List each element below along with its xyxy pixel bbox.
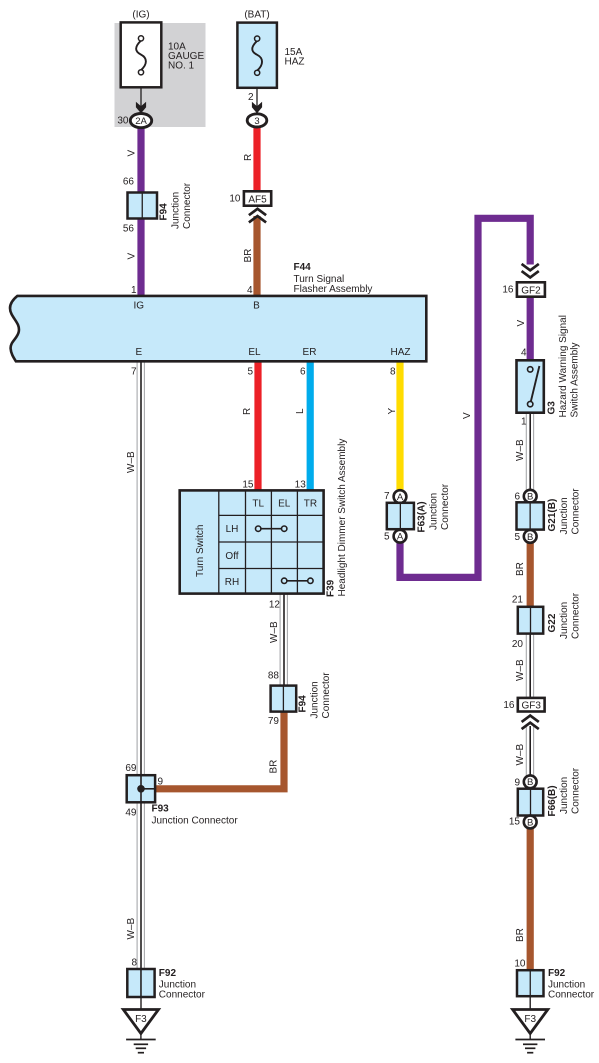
svg-text:5: 5 — [247, 367, 253, 378]
junction connector F63(A) (pins 7/5) — [394, 490, 407, 503]
wire W-B from F93 to F92 pin 8 — [136, 801, 138, 970]
svg-text:Junction: Junction — [559, 777, 570, 814]
svg-text:16: 16 — [502, 285, 514, 296]
svg-text:R: R — [242, 408, 253, 415]
svg-text:AF5: AF5 — [248, 194, 267, 205]
svg-text:4: 4 — [247, 285, 253, 296]
svg-text:Y: Y — [387, 408, 398, 415]
svg-text:Connector: Connector — [571, 592, 582, 639]
junction connector F66(B) (pins 9/15) — [524, 775, 537, 788]
svg-text:Junction Connector: Junction Connector — [152, 816, 239, 827]
svg-text:Junction: Junction — [559, 497, 570, 534]
svg-text:69: 69 — [125, 763, 137, 774]
svg-text:B: B — [527, 532, 533, 543]
svg-text:B: B — [527, 777, 533, 788]
svg-text:10: 10 — [229, 194, 241, 205]
svg-text:7: 7 — [384, 491, 390, 502]
svg-text:15: 15 — [509, 817, 521, 828]
svg-text:BR: BR — [243, 249, 254, 263]
wire V from F63(A) pin 5 up and over to GF2 pin 16 — [400, 218, 530, 577]
svg-text:Turn Switch: Turn Switch — [195, 525, 206, 577]
svg-text:21: 21 — [512, 594, 524, 605]
svg-text:79: 79 — [268, 716, 280, 727]
svg-text:B: B — [527, 492, 533, 503]
svg-text:B: B — [527, 817, 533, 828]
svg-text:2A: 2A — [135, 116, 147, 127]
LH contact TL-EL — [258, 528, 284, 530]
wire L from F44 pin 6 (ER) to turn switch pin 13 — [307, 360, 314, 492]
connector GF2 (pin 16) — [517, 282, 545, 296]
svg-text:W–B: W–B — [269, 621, 280, 643]
svg-text:HAZ: HAZ — [285, 57, 305, 68]
svg-text:Connector: Connector — [571, 767, 582, 814]
wire BR from AF5 to F44 pin 4 (B) — [253, 216, 260, 297]
svg-text:Connector: Connector — [548, 989, 595, 1000]
svg-text:IG: IG — [134, 301, 145, 312]
fuse 10A GAUGE NO. 1 (IG) — [121, 22, 162, 87]
svg-text:6: 6 — [300, 367, 306, 378]
svg-text:V: V — [127, 253, 138, 260]
wire W-B from GF3 to F66(B) pin 9 — [525, 726, 527, 776]
svg-text:GF3: GF3 — [521, 700, 541, 711]
svg-text:5: 5 — [384, 531, 390, 542]
svg-text:Connector: Connector — [440, 483, 451, 530]
svg-text:49: 49 — [125, 808, 137, 819]
svg-text:L: L — [295, 408, 306, 414]
fuse 15A HAZ (BAT) — [237, 23, 277, 88]
wire V from GF2 to G3 pin 4 — [527, 294, 534, 362]
svg-text:W–B: W–B — [515, 439, 526, 461]
svg-text:V: V — [462, 412, 473, 419]
svg-text:F93: F93 — [152, 804, 170, 815]
wire V from fuse 2A to F44 pin 1 (IG) — [137, 126, 144, 297]
svg-text:V: V — [516, 320, 527, 327]
wire BR from G21(B) pin 5 to G22 pin 21 — [527, 542, 534, 608]
wire R from F44 pin 5 (EL) to turn switch pin 15 — [254, 360, 261, 492]
svg-text:G21(B): G21(B) — [547, 499, 558, 532]
svg-text:E: E — [135, 347, 142, 358]
wire R from battery oval 3 to connector AF5 — [253, 127, 260, 194]
svg-text:TL: TL — [252, 499, 264, 510]
svg-text:10: 10 — [514, 959, 526, 970]
svg-text:20: 20 — [512, 639, 524, 650]
svg-text:BR: BR — [515, 928, 526, 942]
svg-text:RH: RH — [225, 577, 239, 588]
svg-text:Connector: Connector — [321, 672, 332, 719]
svg-text:BR: BR — [515, 562, 526, 576]
svg-text:Junction: Junction — [310, 681, 321, 718]
svg-text:15: 15 — [242, 480, 254, 491]
junction connector F92 left (pin 8) — [127, 969, 154, 997]
svg-text:Flasher Assembly: Flasher Assembly — [294, 284, 373, 295]
wire W-B from G3 pin 1 to G21(B) pin 6 — [525, 411, 527, 491]
svg-text:TR: TR — [304, 499, 317, 510]
svg-text:F3: F3 — [135, 1014, 147, 1025]
svg-text:(BAT): (BAT) — [244, 10, 269, 21]
page chevrons below AF5 — [249, 209, 266, 215]
svg-text:30: 30 — [117, 116, 129, 127]
svg-text:G22: G22 — [547, 613, 558, 632]
svg-text:B: B — [253, 301, 260, 312]
arrow into terminal 3 — [252, 102, 262, 114]
svg-text:A: A — [397, 532, 404, 543]
svg-text:F94: F94 — [298, 695, 309, 713]
svg-text:16: 16 — [503, 700, 515, 711]
svg-text:(IG): (IG) — [132, 10, 149, 21]
svg-text:LH: LH — [226, 524, 239, 535]
wire W-B from G22 pin 20 to GF3 pin 16 — [525, 632, 527, 699]
wire W-B from F44 pin 7 (E) to junction F93 — [136, 360, 138, 777]
svg-text:5: 5 — [514, 532, 520, 543]
svg-text:9: 9 — [514, 777, 520, 788]
svg-text:13: 13 — [295, 480, 307, 491]
wire BR from F66(B) pin 15 to F92 pin 10 — [527, 828, 534, 971]
svg-text:EL: EL — [248, 347, 261, 358]
svg-text:ER: ER — [303, 347, 317, 358]
svg-text:BR: BR — [269, 760, 280, 774]
junction connector F92 right (pin 10) — [517, 970, 544, 996]
page chevrons below GF3 — [522, 716, 539, 722]
svg-text:F63(A): F63(A) — [417, 501, 428, 532]
svg-text:66: 66 — [123, 177, 135, 188]
svg-text:F39: F39 — [325, 579, 336, 597]
svg-text:NO. 1: NO. 1 — [168, 61, 195, 72]
svg-text:Off: Off — [225, 551, 238, 562]
svg-text:1: 1 — [521, 417, 527, 428]
junction connector F94 (pins 66/56) — [128, 193, 158, 219]
connector AF5 (pin 10) — [244, 191, 271, 205]
junction connector F93 (pins 69/49/9) — [127, 775, 155, 802]
svg-text:8: 8 — [131, 958, 137, 969]
svg-text:G3: G3 — [547, 401, 558, 415]
G3 Hazard Warning Signal Switch Assembly — [517, 360, 544, 412]
svg-text:R: R — [243, 154, 254, 161]
wire from fuse to terminal 2A — [140, 87, 142, 110]
svg-text:9: 9 — [158, 777, 164, 788]
svg-text:F3: F3 — [524, 1014, 536, 1025]
svg-text:F44: F44 — [294, 262, 312, 273]
svg-text:56: 56 — [123, 224, 135, 235]
wire from fuse to terminal 3 — [256, 87, 258, 110]
svg-text:7: 7 — [131, 367, 137, 378]
svg-text:4: 4 — [521, 348, 527, 359]
svg-text:Connector: Connector — [159, 989, 206, 1000]
svg-text:W–B: W–B — [126, 918, 137, 940]
svg-text:W–B: W–B — [515, 659, 526, 681]
terminal oval 2A — [130, 114, 151, 128]
ground F3 right — [513, 1010, 548, 1034]
junction connector G21(B) (pins 6/5) — [524, 490, 537, 503]
RH contact EL-TR — [284, 580, 310, 582]
svg-text:Headlight Dimmer Switch Assemb: Headlight Dimmer Switch Assembly — [337, 439, 348, 597]
F39 turn switch / headlight dimmer switch assembly — [180, 490, 324, 593]
svg-text:Junction: Junction — [559, 602, 570, 639]
junction connector G22 (pins 21/20) — [518, 607, 543, 634]
wire Y from F44 pin 8 (HAZ) to F63(A) pin 7 — [396, 360, 403, 491]
svg-text:W–B: W–B — [126, 451, 137, 473]
svg-text:V: V — [127, 150, 138, 157]
svg-text:HAZ: HAZ — [391, 347, 411, 358]
wire BR from F94 pin 79 to junction F93 pin 9 — [156, 710, 285, 789]
svg-text:Connector: Connector — [182, 182, 193, 229]
svg-text:Switch Assembly: Switch Assembly — [570, 342, 581, 417]
svg-text:Junction: Junction — [429, 493, 440, 530]
svg-text:Connector: Connector — [571, 488, 582, 535]
IG fuse gray background block — [115, 23, 206, 127]
wire W-B from turn switch pin 12 to F94 pin 88 — [279, 592, 281, 686]
svg-text:W–B: W–B — [515, 744, 526, 766]
arrow into terminal 2A — [136, 102, 146, 114]
svg-text:3: 3 — [254, 116, 259, 127]
svg-text:2: 2 — [248, 92, 254, 103]
svg-text:6: 6 — [514, 492, 520, 503]
ground F3 left — [123, 1010, 158, 1034]
page chevrons above GF2 — [522, 271, 539, 277]
svg-text:1: 1 — [131, 285, 137, 296]
F44 Turn Signal Flasher Assembly box — [10, 296, 426, 361]
junction connector F94 (pins 88/79) — [271, 686, 297, 712]
svg-text:F66(B): F66(B) — [547, 785, 558, 816]
terminal oval 3 — [247, 114, 267, 127]
svg-text:F94: F94 — [159, 203, 170, 221]
svg-text:8: 8 — [390, 367, 396, 378]
svg-text:Hazard Warning Signal: Hazard Warning Signal — [558, 315, 569, 417]
svg-text:12: 12 — [269, 600, 281, 611]
svg-text:EL: EL — [278, 499, 291, 510]
svg-text:F92: F92 — [159, 968, 177, 979]
svg-text:88: 88 — [268, 671, 280, 682]
connector GF3 (pin 16) — [518, 698, 545, 712]
svg-text:Junction: Junction — [171, 192, 182, 229]
svg-text:F92: F92 — [548, 968, 566, 979]
svg-text:GF2: GF2 — [521, 285, 541, 296]
svg-text:A: A — [397, 492, 404, 503]
